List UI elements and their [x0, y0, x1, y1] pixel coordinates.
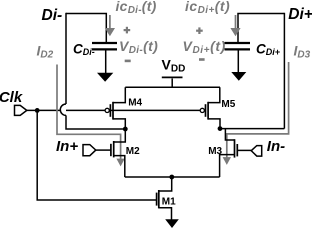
wire Di- vertical lower segment to node — [66, 115, 125, 129]
svg-text:VDD: VDD — [162, 57, 186, 75]
gray current path I_D3 with arrow into M3 — [227, 62, 289, 158]
svg-text:VDi+(t): VDi+(t) — [183, 38, 226, 56]
node junction on Clk line — [35, 108, 40, 113]
transistor M5 (PMOS) — [200, 87, 220, 128]
transistor M4 (PMOS) — [105, 87, 125, 129]
svg-text:M2: M2 — [126, 146, 140, 157]
svg-text:M4: M4 — [128, 98, 142, 109]
svg-text:icDi-(t): icDi-(t) — [116, 0, 157, 16]
gray current arrow ic_Di- — [105, 15, 115, 36]
svg-text:ID2: ID2 — [37, 43, 54, 61]
svg-text:ID3: ID3 — [294, 43, 311, 61]
svg-text:CDi+: CDi+ — [256, 42, 281, 58]
transistor M2 (NMOS) — [96, 129, 126, 177]
capacitor C_Di+ — [225, 43, 251, 73]
supply V_DD symbol — [162, 77, 183, 87]
svg-text:Clk: Clk — [0, 89, 23, 106]
svg-text:VDi-(t): VDi-(t) — [119, 38, 158, 56]
port Clk — [15, 105, 27, 115]
gray current arrow ic_Di+ — [230, 15, 240, 36]
capacitor C_Di- — [92, 43, 117, 74]
node A: M4 drain junction dot — [123, 127, 128, 132]
wire Di+ vertical — [283, 13, 285, 129]
wire VDD rail — [125, 86, 220, 88]
gray current path I_D2 with arrow into M2 — [57, 65, 121, 160]
svg-text:In+: In+ — [56, 138, 78, 155]
label V_Di-(t) with plus minus — [124, 27, 131, 34]
svg-text:Di+: Di+ — [288, 6, 312, 23]
wire Di- top horizontal to capacitor — [66, 14, 106, 43]
wire Clk to M1 gate — [37, 110, 156, 200]
node B: M5 drain junction dot — [218, 126, 223, 131]
wire Di- vertical upper segment — [65, 13, 67, 104]
svg-text:M5: M5 — [221, 99, 235, 110]
port In+ — [83, 145, 96, 156]
port In- — [251, 146, 262, 157]
ground (arrow) below C_Di+ — [231, 72, 246, 81]
wire hop: Di- vertical crossing over Clk wire — [60, 104, 66, 115]
svg-text:In-: In- — [267, 138, 285, 155]
label V_Di+(t) with plus minus — [196, 27, 203, 34]
svg-text:Di-: Di- — [42, 7, 63, 24]
svg-text:M1: M1 — [162, 197, 176, 208]
ground (arrow) below C_Di- — [97, 73, 113, 82]
svg-text:CDi-: CDi- — [73, 42, 95, 58]
ground (arrow) below M1 — [165, 219, 179, 228]
wire M5 drain node to Di+ — [220, 128, 284, 130]
wire tail rail — [125, 176, 220, 178]
transistor M3 (NMOS, mirrored) — [220, 129, 252, 177]
svg-text:M3: M3 — [208, 146, 222, 157]
svg-text:icDi+(t): icDi+(t) — [185, 0, 230, 16]
transistor M1 (NMOS tail) — [157, 177, 172, 220]
wire Clk gate bus (Clk port to M4 gate and on to M5 gate) — [27, 109, 201, 111]
node C: tail junction dot — [169, 175, 174, 180]
wire Di+ top horizontal to capacitor — [238, 14, 284, 43]
